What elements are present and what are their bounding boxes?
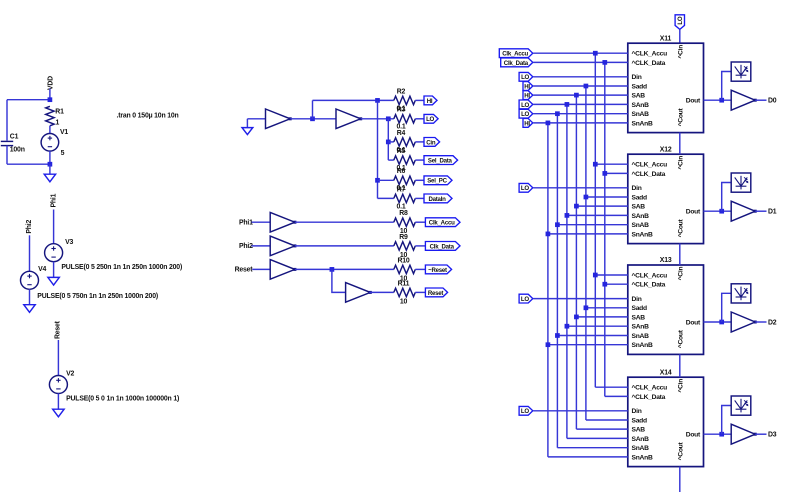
resistor R7 (394, 194, 416, 202)
flag LO (519, 72, 533, 81)
node junction (584, 195, 589, 200)
svg-text:SnAB: SnAB (632, 111, 650, 118)
svg-text:Reset: Reset (54, 320, 61, 339)
wire (533, 122, 628, 124)
pin labels X11 (632, 45, 702, 128)
wire (49, 89, 51, 100)
wire (415, 268, 425, 270)
wire (533, 410, 628, 412)
wire (557, 224, 627, 226)
wire (533, 94, 628, 96)
flag HI (523, 119, 533, 128)
svg-text:VDD: VDD (48, 76, 55, 90)
pin labels X12 (632, 156, 702, 239)
wire (533, 52, 628, 54)
wire (548, 344, 628, 346)
svg-text:100n: 100n (10, 147, 25, 154)
wire (295, 245, 394, 247)
wire (57, 340, 59, 376)
svg-text:1: 1 (56, 120, 60, 127)
wire (605, 395, 628, 397)
resistor R2 (394, 96, 416, 104)
flag Reset (425, 288, 447, 297)
subcircuit X14 (628, 377, 704, 466)
node junction (593, 162, 598, 167)
wire (586, 419, 628, 421)
flag HI (523, 82, 533, 91)
resistor R11 (394, 288, 416, 296)
buffer output D2 (731, 312, 755, 332)
node junction (48, 162, 53, 167)
svg-text:V3: V3 (65, 239, 73, 246)
flag LO (519, 100, 533, 109)
wire Dout (704, 321, 732, 323)
node junction (565, 324, 570, 329)
svg-text:HI: HI (524, 93, 530, 100)
svg-text:^Cout: ^Cout (677, 218, 685, 237)
wire (53, 210, 55, 244)
svg-text:SAnB: SAnB (632, 102, 650, 109)
svg-text:Dout: Dout (686, 209, 701, 216)
wire ^Cout to ^Cin (679, 244, 681, 265)
ground (242, 128, 253, 135)
wire (533, 113, 628, 115)
svg-text:X11: X11 (660, 35, 672, 42)
wire (312, 100, 314, 118)
wire (6, 146, 8, 165)
svg-text:Cin: Cin (426, 139, 436, 146)
wire (557, 335, 627, 337)
flag ~Reset (425, 265, 451, 274)
buffer U1 (266, 109, 291, 129)
pin labels X14 (632, 379, 702, 462)
svg-text:PULSE(0 5 750n 1n 1n 250n 1000: PULSE(0 5 750n 1n 1n 250n 1000n 200) (37, 293, 158, 300)
wire (415, 99, 424, 101)
svg-text:Dout: Dout (686, 98, 701, 105)
wire (595, 386, 628, 388)
node junction (584, 305, 589, 310)
node junction (310, 116, 315, 121)
wire (415, 245, 425, 247)
svg-text:D1: D1 (768, 209, 777, 216)
svg-text:HI: HI (427, 98, 433, 105)
svg-text:X12: X12 (660, 146, 672, 153)
svg-text:V4: V4 (38, 266, 46, 273)
svg-text:Phi2: Phi2 (239, 243, 253, 250)
node junction (719, 320, 724, 325)
svg-text:SnAnB: SnAnB (632, 342, 653, 349)
svg-text:Dout: Dout (686, 432, 701, 439)
svg-text:LO: LO (521, 296, 529, 303)
wire (388, 159, 394, 161)
wire ^Cout X14 (679, 467, 681, 492)
wire (595, 274, 628, 276)
wire (567, 214, 628, 216)
svg-text:C1: C1 (10, 134, 19, 141)
wire (586, 196, 628, 198)
svg-text:LO: LO (521, 185, 529, 192)
flag LO (519, 183, 533, 192)
net CLK_Data bus (604, 62, 606, 396)
node junction (555, 222, 560, 227)
wire (557, 447, 627, 449)
resistor R4 (394, 138, 416, 146)
svg-text:^CLK_Accu: ^CLK_Accu (632, 384, 668, 392)
svg-text:LO: LO (521, 74, 529, 81)
svg-text:LO: LO (521, 102, 529, 109)
wire (387, 119, 389, 160)
svg-text:SAB: SAB (632, 314, 646, 321)
buffer output D3 (731, 424, 755, 444)
wire (57, 394, 59, 410)
svg-text:Reset: Reset (235, 267, 254, 274)
svg-text:SAnB: SAnB (632, 436, 650, 443)
svg-text:Phi1: Phi1 (50, 193, 57, 207)
wire ^Cout to ^Cin (679, 133, 681, 155)
voltage source V3 (45, 244, 63, 262)
ground (53, 409, 64, 417)
svg-text:SnAnB: SnAnB (632, 120, 653, 127)
wire (369, 291, 394, 293)
svg-text:R3: R3 (397, 107, 406, 114)
wire (378, 179, 394, 181)
wire (533, 103, 628, 105)
svg-text:^CLK_Data: ^CLK_Data (632, 170, 666, 178)
svg-text:V2: V2 (66, 371, 74, 378)
node junction (375, 178, 380, 183)
wire (295, 221, 394, 223)
node junction (719, 209, 724, 214)
svg-text:Sel_PC: Sel_PC (427, 178, 447, 185)
wire (567, 325, 628, 327)
wire (755, 210, 766, 212)
wire (415, 141, 424, 143)
resistor R1 (46, 106, 54, 126)
wire (290, 118, 336, 120)
svg-text:Reset: Reset (428, 290, 444, 297)
node junction (602, 171, 607, 176)
net CLK_Accu bus (594, 53, 596, 387)
node junction (386, 116, 391, 121)
svg-text:SnAB: SnAB (632, 445, 650, 452)
svg-text:5: 5 (61, 150, 65, 157)
pin labels X13 (632, 267, 702, 350)
wire (29, 289, 31, 304)
wire (533, 61, 628, 63)
wire (722, 72, 732, 101)
wire Dout (704, 210, 732, 212)
svg-text:~Reset: ~Reset (428, 267, 447, 274)
svg-text:R9: R9 (399, 234, 408, 241)
wire (415, 179, 424, 181)
flag Clk_Accu (499, 49, 533, 58)
wire (313, 99, 394, 101)
wire (605, 172, 628, 174)
svg-text:^CLK_Data: ^CLK_Data (632, 59, 666, 67)
node junction (719, 98, 724, 103)
node junction (375, 98, 380, 103)
ground (44, 174, 55, 182)
svg-text:^CLK_Accu: ^CLK_Accu (632, 50, 668, 58)
wire (332, 269, 346, 292)
wire (377, 100, 379, 198)
svg-text:V1: V1 (60, 129, 68, 136)
wire (252, 268, 270, 270)
wire (533, 187, 628, 189)
node junction (546, 232, 551, 237)
wire (576, 316, 627, 318)
svg-text:Sadd: Sadd (632, 305, 648, 312)
svg-text:^CLK_Accu: ^CLK_Accu (632, 271, 668, 279)
ground (24, 305, 35, 313)
svg-text:Din: Din (632, 185, 642, 192)
buffer output D1 (731, 201, 755, 221)
flag Sel_PC (424, 176, 452, 185)
wire (252, 245, 271, 247)
wire (7, 99, 50, 101)
svg-text:SAnB: SAnB (632, 213, 650, 220)
svg-text:Clk_Accu: Clk_Accu (429, 220, 455, 227)
wire (415, 159, 424, 161)
buffer U4 (270, 236, 295, 256)
svg-text:Sadd: Sadd (632, 194, 648, 201)
wire (586, 307, 628, 309)
wire (378, 197, 394, 199)
wire (29, 235, 31, 271)
wire (49, 164, 51, 174)
svg-text:Clk_Data: Clk_Data (430, 243, 455, 250)
svg-text:R4: R4 (397, 130, 406, 137)
node junction (574, 204, 579, 209)
wire (533, 298, 628, 300)
buffer U2 (336, 109, 361, 129)
wire (361, 118, 394, 120)
buffer U3 (270, 212, 295, 232)
wire Dout (704, 433, 732, 435)
wire (679, 29, 681, 43)
svg-text:X14: X14 (660, 369, 672, 376)
wire (49, 126, 51, 134)
wire (53, 262, 55, 278)
svg-text:SAB: SAB (632, 427, 646, 434)
voltage source V4 (21, 271, 39, 289)
wire (49, 151, 51, 164)
wire (755, 321, 766, 323)
subcircuit X13 (628, 265, 704, 354)
svg-text:HI: HI (524, 120, 530, 127)
subcircuit X11 (628, 43, 704, 132)
wire (533, 76, 628, 78)
subcircuit X12 (628, 154, 704, 243)
svg-text:R7: R7 (397, 186, 406, 193)
buffer U6 (346, 283, 371, 303)
net SnAnB bus (547, 123, 549, 457)
voltage source V2 (49, 376, 67, 394)
wire (605, 283, 628, 285)
wire (755, 99, 766, 101)
node junction (386, 140, 391, 145)
svg-text:^CLK_Data: ^CLK_Data (632, 281, 666, 289)
flag DataIn (424, 194, 452, 203)
flag LO (424, 114, 438, 123)
ground (48, 277, 59, 285)
node junction (593, 273, 598, 278)
net SAB bus (575, 95, 577, 429)
svg-text:LO: LO (677, 16, 684, 24)
svg-text:R8: R8 (399, 210, 408, 217)
node junction (565, 213, 570, 218)
resistor R9 (394, 242, 416, 250)
wire (722, 183, 732, 212)
net SnAB bus (556, 114, 558, 448)
flag HI (523, 91, 533, 100)
svg-text:LO: LO (521, 408, 529, 415)
svg-text:SAB: SAB (632, 204, 646, 211)
flag HI (424, 96, 437, 105)
svg-text:^Cout: ^Cout (677, 329, 685, 348)
wire (246, 119, 248, 128)
wire (415, 118, 424, 120)
wire (415, 197, 424, 199)
svg-text:.tran 0 150µ 10n 10n: .tran 0 150µ 10n 10n (117, 112, 179, 119)
svg-text:^Cin: ^Cin (677, 45, 685, 59)
svg-text:DataIn: DataIn (428, 196, 446, 203)
wire (722, 293, 732, 322)
svg-text:SnAnB: SnAnB (632, 454, 653, 461)
svg-text:SnAnB: SnAnB (632, 231, 653, 238)
svg-text:^CLK_Accu: ^CLK_Accu (632, 161, 668, 169)
svg-text:PULSE(0 5 250n 1n 1n 250n 1000: PULSE(0 5 250n 1n 1n 250n 1000n 200) (61, 264, 182, 271)
flag LO (519, 294, 533, 303)
wire ^Cout to ^Cin (679, 354, 681, 377)
svg-text:Din: Din (632, 74, 642, 81)
wire (252, 221, 271, 223)
node junction (574, 315, 579, 320)
resistor R8 (394, 218, 416, 226)
flag LO (519, 109, 533, 118)
svg-text:Sadd: Sadd (632, 417, 648, 424)
svg-text:D2: D2 (768, 319, 777, 326)
flag LO (to X11 ^Cin) (675, 15, 684, 30)
svg-text:Phi1: Phi1 (239, 220, 253, 227)
resistor R5 (394, 156, 416, 164)
svg-text:X13: X13 (660, 257, 672, 264)
svg-text:Phi2: Phi2 (26, 219, 33, 233)
buffer output D0 (731, 90, 755, 110)
wire (576, 205, 627, 207)
svg-text:R6: R6 (397, 168, 406, 175)
resistor R10 (394, 265, 416, 273)
svg-text:HI: HI (524, 83, 530, 90)
resistor R6 (394, 176, 416, 184)
svg-text:SnAB: SnAB (632, 333, 650, 340)
wire (7, 163, 50, 165)
svg-text:^Cin: ^Cin (677, 267, 685, 281)
node junction (330, 267, 335, 272)
svg-text:SAnB: SAnB (632, 324, 650, 331)
svg-text:SAB: SAB (632, 93, 646, 100)
svg-text:Clk_Data: Clk_Data (504, 60, 529, 67)
resistor R3 (394, 115, 416, 123)
node junction (719, 432, 724, 437)
flag Cin (424, 138, 440, 147)
node junction (602, 282, 607, 287)
buffer U5 (270, 260, 295, 280)
svg-text:^CLK_Data: ^CLK_Data (632, 393, 666, 401)
wire (388, 141, 394, 143)
net Sadd bus (585, 86, 587, 420)
flag Clk_Data (425, 242, 460, 251)
svg-text:SnAB: SnAB (632, 222, 650, 229)
net SAnB bus (566, 104, 568, 438)
svg-text:LO: LO (426, 116, 434, 123)
wire (533, 85, 628, 87)
wire (576, 428, 627, 430)
LED D1 indicator (731, 173, 751, 192)
svg-text:R11: R11 (398, 280, 410, 287)
wire (548, 456, 628, 458)
svg-text:R5: R5 (397, 148, 406, 155)
svg-text:Sel_Data: Sel_Data (428, 158, 453, 165)
svg-text:^Cin: ^Cin (677, 379, 685, 393)
svg-text:R2: R2 (397, 88, 406, 95)
LED D2 indicator (731, 284, 751, 303)
wire (415, 291, 425, 293)
svg-text:^Cout: ^Cout (677, 441, 685, 460)
svg-text:R1: R1 (55, 109, 64, 116)
wire Dout (704, 99, 732, 101)
svg-text:10: 10 (400, 298, 408, 305)
LED D0 indicator (731, 62, 751, 81)
flag LO (519, 406, 533, 415)
wire (6, 100, 8, 141)
flag Clk_Data (501, 58, 533, 67)
capacitor C1 (1, 141, 13, 145)
node junction (555, 333, 560, 338)
svg-text:Dout: Dout (686, 319, 701, 326)
wire (722, 406, 732, 435)
flag Clk_Accu (425, 218, 460, 227)
wire (295, 268, 394, 270)
wire (567, 437, 628, 439)
svg-text:Sadd: Sadd (632, 83, 648, 90)
svg-text:D3: D3 (768, 432, 777, 439)
svg-text:Din: Din (632, 408, 642, 415)
node junction (48, 97, 53, 102)
svg-text:^Cout: ^Cout (677, 107, 685, 126)
svg-text:Din: Din (632, 296, 642, 303)
wire (548, 233, 628, 235)
LED D3 indicator (731, 396, 751, 415)
voltage source V1 (41, 134, 59, 152)
wire (415, 221, 425, 223)
svg-text:R10: R10 (397, 257, 409, 264)
wire (595, 163, 628, 165)
svg-text:LO: LO (521, 111, 529, 118)
wire (755, 433, 766, 435)
svg-text:^Cin: ^Cin (677, 156, 685, 170)
svg-text:Clk_Accu: Clk_Accu (502, 51, 528, 58)
svg-text:D0: D0 (768, 98, 777, 105)
node junction (546, 342, 551, 347)
flag Sel_Data (424, 156, 458, 165)
svg-text:PULSE(0 5 0 1n 1n 1000n 100000: PULSE(0 5 0 1n 1n 1000n 100000n 1) (66, 395, 179, 402)
wire (247, 118, 265, 120)
